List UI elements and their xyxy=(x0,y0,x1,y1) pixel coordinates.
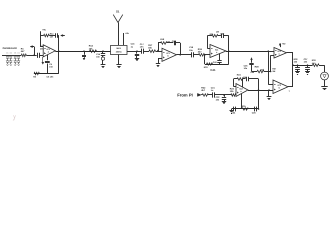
wire R1 to C2 xyxy=(26,55,36,57)
svg-text:1u: 1u xyxy=(211,89,214,92)
wire IC2c noninverting return xyxy=(270,55,274,72)
capacitor C28 shunt xyxy=(305,64,310,74)
wire IC1c output xyxy=(226,51,268,53)
antenna S1 xyxy=(113,9,123,45)
svg-text:R2: R2 xyxy=(33,76,37,79)
wire IC2b output xyxy=(288,86,293,88)
wire feedback return op1 xyxy=(58,36,60,74)
capacitor C15 shunt with test point xyxy=(96,50,105,67)
svg-text:10n: 10n xyxy=(96,56,100,59)
svg-text:10n: 10n xyxy=(40,48,44,51)
resistor R23 xyxy=(224,87,236,96)
svg-text:R28: R28 xyxy=(294,58,299,61)
op-amp IC1a xyxy=(43,45,55,57)
op-amp IC2b xyxy=(273,80,288,94)
wire op3 bottom left return xyxy=(204,55,206,64)
svg-text:10n: 10n xyxy=(49,66,53,69)
svg-text:D4: D4 xyxy=(18,52,20,55)
input terminal xyxy=(2,47,17,56)
svg-text:C25: C25 xyxy=(244,65,249,68)
svg-text:R17: R17 xyxy=(148,44,153,47)
wire feedback return op2 xyxy=(179,43,181,56)
svg-text:+9v: +9v xyxy=(282,42,286,45)
wire feedback return op4 xyxy=(258,79,260,109)
svg-text:1M: 1M xyxy=(272,70,275,73)
svg-text:10n: 10n xyxy=(189,49,193,52)
svg-text:C41: C41 xyxy=(210,68,216,72)
svg-text:C21: C21 xyxy=(211,87,216,90)
capacitor C27 shunt xyxy=(295,64,300,74)
wire C2 to IC1a xyxy=(39,55,43,57)
capacitor C22 shunt xyxy=(216,94,227,103)
wire IC1b feedback left xyxy=(157,43,159,51)
resistor R22 xyxy=(201,86,212,96)
svg-text:+9v: +9v xyxy=(125,32,129,35)
ground below module xyxy=(116,55,121,68)
svg-text:C3 10n: C3 10n xyxy=(47,76,55,79)
capacitor C41 label xyxy=(210,68,216,72)
svg-text:+9v: +9v xyxy=(42,29,46,32)
off-page arrow right of C11 xyxy=(61,35,65,37)
resistor R21 feedback xyxy=(207,30,219,37)
wire op3 bottom rail xyxy=(205,64,229,66)
resistor R14 xyxy=(89,45,97,53)
svg-text:4k7: 4k7 xyxy=(201,89,205,92)
wire op1 bottom rail xyxy=(34,73,59,75)
svg-text:JACK: JACK xyxy=(11,47,18,50)
svg-text:1u: 1u xyxy=(131,45,134,48)
wire IC2a output xyxy=(248,90,273,92)
svg-text:R20: R20 xyxy=(204,66,209,69)
capacitor C25 bias xyxy=(244,58,254,72)
resistor R11 feedback xyxy=(41,33,55,39)
diode D5 xyxy=(292,64,294,86)
capacitor C40 bottom xyxy=(213,54,222,64)
svg-text:S1: S1 xyxy=(116,9,120,13)
capacitor C26 bottom right xyxy=(252,107,257,115)
svg-text:C16: C16 xyxy=(131,43,136,46)
wire feedback return op3 xyxy=(228,36,230,64)
wire module output xyxy=(127,51,137,53)
resistor R30 xyxy=(312,59,325,66)
pin 7 label xyxy=(289,90,291,93)
wire input line xyxy=(8,55,22,57)
svg-text:4k7: 4k7 xyxy=(21,50,25,53)
wire IC2c output xyxy=(287,53,294,66)
resistor R28 labels xyxy=(294,58,299,64)
op-amp IC2c xyxy=(274,48,287,59)
capacitor C16 label xyxy=(131,43,136,49)
svg-text:10n: 10n xyxy=(140,46,144,49)
diode D1 xyxy=(6,52,9,66)
svg-text:From PI: From PI xyxy=(177,93,193,98)
capacitor C23 feedback xyxy=(244,77,259,81)
svg-text:R30: R30 xyxy=(312,59,317,62)
capacitor C19 xyxy=(189,46,198,57)
wire IC1c inverting stub xyxy=(207,36,210,49)
svg-text:C40: C40 xyxy=(213,61,218,64)
capacitor C18 feedback xyxy=(167,40,180,45)
capacitor C11 feedback xyxy=(49,33,59,37)
svg-text:C26: C26 xyxy=(252,111,257,114)
svg-text:1M: 1M xyxy=(216,30,219,33)
power +9v op4 xyxy=(243,71,255,87)
capacitor C2 xyxy=(38,45,45,58)
svg-text:R1: R1 xyxy=(21,47,25,50)
svg-text:R25: R25 xyxy=(242,105,247,108)
diode D4 xyxy=(17,52,20,66)
resistor R1 xyxy=(21,47,27,56)
svg-text:10k: 10k xyxy=(230,90,234,93)
capacitor C20 feedback xyxy=(218,33,229,38)
svg-text:10k: 10k xyxy=(294,61,298,64)
svg-text:D1: D1 xyxy=(6,52,8,55)
svg-text:R24: R24 xyxy=(237,74,242,77)
resistor R17 xyxy=(148,44,162,53)
capacitor C4 xyxy=(45,55,54,74)
page mark xyxy=(13,115,16,121)
svg-text:R19: R19 xyxy=(198,48,203,51)
svg-text:10k: 10k xyxy=(148,47,152,50)
diode D3 xyxy=(14,52,17,66)
svg-text:C27: C27 xyxy=(304,58,309,61)
arrow below IC1a xyxy=(42,57,44,64)
svg-text:R14: R14 xyxy=(89,45,94,48)
capacitor C16 shunt xyxy=(135,50,139,60)
label From PI xyxy=(177,93,193,98)
resistor R20 bottom xyxy=(204,63,213,69)
meter M1 xyxy=(321,72,329,80)
svg-text:R21: R21 xyxy=(210,33,215,36)
svg-text:D3: D3 xyxy=(14,52,16,55)
resistor R2 bottom xyxy=(33,72,39,78)
resistor R25 bottom xyxy=(242,105,249,110)
wire IC1b noninverting ground xyxy=(156,58,162,66)
capacitor C21 xyxy=(211,87,224,98)
ground op4 bottom left xyxy=(230,109,234,114)
power +9v op5 xyxy=(279,42,286,47)
svg-text:MK1: MK1 xyxy=(117,47,122,50)
svg-text:7: 7 xyxy=(289,90,291,93)
svg-text:10n: 10n xyxy=(244,67,248,70)
svg-text:C17: C17 xyxy=(140,43,145,46)
resistor R24 feedback xyxy=(234,74,247,81)
capacitor C17 xyxy=(137,43,149,54)
svg-text:40kHz: 40kHz xyxy=(116,50,122,53)
resistor R18 feedback xyxy=(158,38,170,44)
svg-text:10n: 10n xyxy=(304,61,308,64)
ground IC2b noninverting xyxy=(267,89,272,99)
op-amp IC1b xyxy=(162,48,177,61)
module MK1 box xyxy=(111,46,128,55)
resistor R27 label xyxy=(272,67,277,73)
wire IC1a output line xyxy=(55,51,110,53)
power +9v node op1 xyxy=(41,29,47,36)
svg-text:C15: C15 xyxy=(96,53,101,56)
wire IC1a inverting stub xyxy=(41,36,44,47)
wire rectifier out line xyxy=(293,65,313,67)
svg-text:R27: R27 xyxy=(272,67,277,70)
op-amp IC1c xyxy=(210,45,226,58)
wire main into IC2c xyxy=(268,51,274,53)
svg-text:R26: R26 xyxy=(255,66,260,69)
wire IC1b output xyxy=(177,54,192,56)
svg-text:R23: R23 xyxy=(230,87,235,90)
capacitor C3 label xyxy=(47,76,55,79)
wire IC2a inverting stub xyxy=(234,79,237,87)
wire op4 under-triangle vertical xyxy=(241,94,243,109)
wire to meter xyxy=(324,65,326,72)
wire op4 bottom rail xyxy=(232,108,259,110)
svg-text:R22: R22 xyxy=(201,86,206,89)
capacitor C28 labels xyxy=(304,58,309,64)
off-page arrow node AGC xyxy=(30,46,35,57)
svg-text:D2: D2 xyxy=(10,52,12,55)
svg-text:R18: R18 xyxy=(160,38,165,41)
svg-text:C19: C19 xyxy=(189,46,194,49)
wire op3 out to rectifier vertical xyxy=(268,50,270,84)
op-amp IC2a xyxy=(236,84,248,97)
capacitor C5 shunt xyxy=(82,50,86,59)
diode D2 xyxy=(9,52,12,66)
ground below meter xyxy=(321,80,327,90)
resistor R26 xyxy=(252,66,271,73)
wire to IC2b inverting xyxy=(268,84,273,86)
resistor R19 xyxy=(198,48,210,56)
capacitor C24 bottom left xyxy=(231,107,236,115)
wire op4 bottom return right xyxy=(258,108,260,110)
arrow from PI xyxy=(197,93,202,96)
power +9v to module xyxy=(124,32,130,45)
